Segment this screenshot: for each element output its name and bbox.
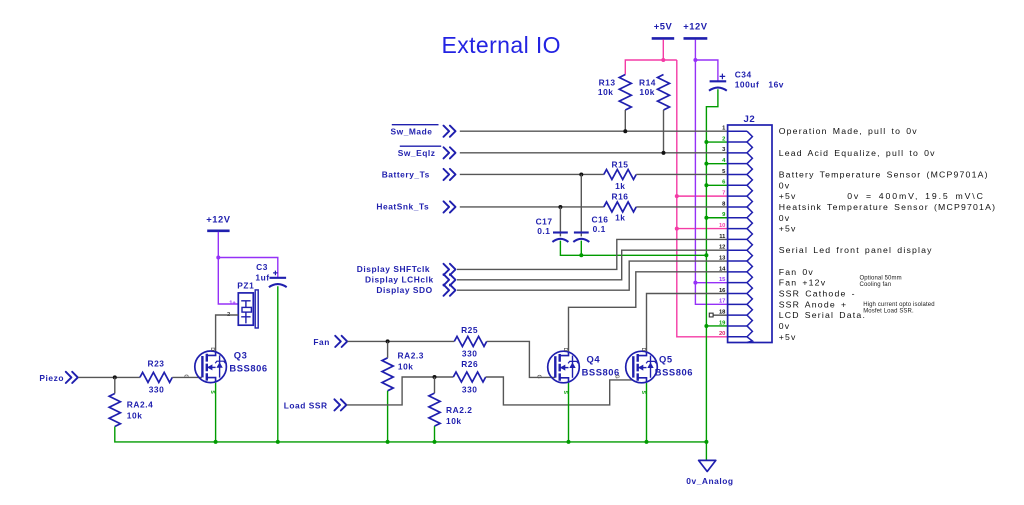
svg-text:R25: R25 xyxy=(461,325,478,335)
wire +12v branch to pin15 xyxy=(695,282,727,284)
svg-text:Battery Temperature Sensor (MC: Battery Temperature Sensor (MCP9701A) xyxy=(779,169,989,179)
svg-text:11: 11 xyxy=(719,234,726,240)
wire PZ1 pin2 to Q3 drain xyxy=(216,315,239,351)
svg-text:10k: 10k xyxy=(398,362,414,372)
wire R14 bottom to Sw_Eqlz xyxy=(663,110,665,153)
svg-text:Heatsink Temperature Sensor (M: Heatsink Temperature Sensor (MCP9701A) xyxy=(779,202,997,212)
svg-text:+12V: +12V xyxy=(683,21,708,32)
connector J2 xyxy=(728,114,772,343)
wire Display SHFTclk to pin11 xyxy=(457,239,728,269)
svg-text:Mosfet Load SSR.: Mosfet Load SSR. xyxy=(863,308,914,314)
wire 0v ground rail xyxy=(216,441,707,443)
svg-text:Fan: Fan xyxy=(313,337,330,347)
wire 0v stub to pin2 xyxy=(706,141,727,143)
node ground rail junction xyxy=(704,440,708,444)
port Display LCHclk input xyxy=(365,274,456,285)
wire RA2.2 bottom to ground xyxy=(434,426,436,442)
svg-text:Battery_Ts: Battery_Ts xyxy=(382,170,430,180)
svg-text:External IO: External IO xyxy=(442,32,561,58)
svg-text:12: 12 xyxy=(719,245,725,251)
node 0v junction pin2 xyxy=(704,140,708,144)
svg-text:G: G xyxy=(182,374,188,378)
wire Q3 source to ground rail xyxy=(215,383,217,442)
svg-text:Lead Acid Equalize, pull to 0v: Lead Acid Equalize, pull to 0v xyxy=(779,148,936,158)
svg-text:RA2.3: RA2.3 xyxy=(398,350,425,360)
svg-text:1k: 1k xyxy=(615,181,625,191)
wire 0v stub to pin9 xyxy=(706,217,727,219)
wire HeatSnk_Ts to R16 xyxy=(460,206,604,208)
svg-text:0v_Analog: 0v_Analog xyxy=(686,476,733,486)
svg-text:Serial Led front panel display: Serial Led front panel display xyxy=(779,245,933,255)
resistor R13 10k xyxy=(598,75,631,111)
transistor Q3 BSS806 xyxy=(182,347,267,394)
piezo PZ1 xyxy=(227,281,258,329)
svg-text:SSR Anode +: SSR Anode + xyxy=(779,299,848,309)
svg-text:High current opto isolated: High current opto isolated xyxy=(863,302,935,308)
node ground rail junction xyxy=(433,440,437,444)
svg-text:100uf: 100uf xyxy=(735,80,760,90)
svg-text:G: G xyxy=(535,375,541,379)
svg-text:R23: R23 xyxy=(147,359,164,369)
wire Battery_Ts to R15 xyxy=(460,173,604,175)
svg-text:1uf: 1uf xyxy=(255,272,269,282)
node ground rail junction xyxy=(645,440,649,444)
svg-text:BSS806: BSS806 xyxy=(229,363,267,374)
node ground rail junction xyxy=(386,440,390,444)
svg-text:G: G xyxy=(613,375,619,379)
wire Sw_Eqlz to pin3 xyxy=(460,152,728,154)
node Battery_Ts C16 junction xyxy=(579,172,583,176)
port Piezo input xyxy=(39,372,77,383)
svg-text:C34: C34 xyxy=(735,70,752,80)
resistor R23 330 xyxy=(140,359,172,395)
capacitor C3 1uf xyxy=(255,262,286,287)
node 0v junction pin4 xyxy=(704,162,708,166)
wire 0v stub to pin4 xyxy=(706,163,727,165)
wire +12v left rail down to PZ1 pin1 xyxy=(218,232,238,304)
svg-text:10: 10 xyxy=(719,223,725,229)
resistor RA2.2 10k xyxy=(429,393,473,426)
wire R15 to pin5 xyxy=(636,173,727,175)
svg-text:0v: 0v xyxy=(779,213,791,223)
node HeatSnk_Ts C17 junction xyxy=(558,205,562,209)
svg-text:D: D xyxy=(640,348,646,352)
svg-text:16: 16 xyxy=(719,288,726,294)
wire Q4 drain to pin14 xyxy=(569,272,728,352)
svg-text:SSR Cathode -: SSR Cathode - xyxy=(779,289,856,299)
node 0v junction pin19 xyxy=(704,324,708,328)
svg-text:+12V: +12V xyxy=(206,214,231,225)
wire R25 to Q4 gate xyxy=(487,341,556,377)
svg-text:Sw_Made: Sw_Made xyxy=(391,127,433,137)
wire Display LCHclk to pin12 xyxy=(457,250,728,280)
power +12V supply symbol (top) xyxy=(683,21,708,39)
svg-text:10k: 10k xyxy=(446,416,462,426)
svg-text:1k: 1k xyxy=(615,213,625,223)
svg-text:15: 15 xyxy=(719,277,726,283)
svg-text:Q3: Q3 xyxy=(234,350,248,361)
svg-text:330: 330 xyxy=(149,385,165,395)
node +5v pin7 junction xyxy=(675,194,679,198)
wire +5V bar to +5v rail junction xyxy=(662,40,664,61)
capacitor C34 100uf 16v xyxy=(709,70,784,91)
wire Battery_Ts to C16 top xyxy=(580,174,582,236)
port Load SSR input xyxy=(284,399,347,410)
svg-text:17: 17 xyxy=(719,299,725,305)
svg-text:RA2.4: RA2.4 xyxy=(127,400,154,410)
power +5V supply symbol xyxy=(652,21,675,39)
svg-text:Optional 50mm: Optional 50mm xyxy=(860,276,902,282)
node Sw_Eqlz R14 junction xyxy=(662,151,666,155)
wire Battery/HeatSnk to C17 top xyxy=(559,207,561,236)
node ground rail junction xyxy=(276,440,280,444)
svg-text:0v = 400mV, 19.5 mV\C: 0v = 400mV, 19.5 mV\C xyxy=(847,191,985,201)
resistor R26 330 xyxy=(453,359,485,394)
svg-text:Cooling fan: Cooling fan xyxy=(860,282,892,288)
wire R23 to Q3 gate xyxy=(172,376,202,378)
svg-text:R26: R26 xyxy=(461,359,478,369)
node +12v junction xyxy=(693,58,697,62)
wire +5v pink horizontal rail xyxy=(625,60,677,75)
svg-text:16v: 16v xyxy=(768,80,784,90)
wire +12v rail down to pin17 xyxy=(695,60,727,304)
svg-text:Piezo: Piezo xyxy=(39,373,64,383)
svg-text:J2: J2 xyxy=(744,114,756,125)
node +12v left junction xyxy=(216,256,220,260)
svg-text:330: 330 xyxy=(462,384,478,394)
svg-text:HeatSnk_Ts: HeatSnk_Ts xyxy=(376,202,429,212)
svg-text:BSS806: BSS806 xyxy=(655,367,693,378)
port Fan input xyxy=(313,336,347,347)
svg-text:+5v: +5v xyxy=(779,191,797,201)
node 0v junction pin6 xyxy=(704,183,708,187)
svg-text:2: 2 xyxy=(722,136,725,142)
node C16 0v junction xyxy=(579,253,583,257)
node Piezo RA2.4 junction xyxy=(113,375,117,379)
node +12v pin15 junction xyxy=(693,281,697,285)
svg-text:RA2.2: RA2.2 xyxy=(446,405,473,415)
node Fan RA2.3 junction xyxy=(386,339,390,343)
svg-text:18: 18 xyxy=(719,310,726,316)
svg-text:Display LCHclk: Display LCHclk xyxy=(365,275,434,285)
wire Load SSR to R26 xyxy=(347,377,454,405)
wire +12V bar down xyxy=(694,40,696,61)
node ground rail junction xyxy=(567,440,571,444)
transistor Q4 BSS806 xyxy=(535,348,620,395)
svg-text:0v: 0v xyxy=(779,180,791,190)
svg-text:R13: R13 xyxy=(599,78,616,88)
node +5v pin10 junction xyxy=(675,227,679,231)
port Display SHFTclk input xyxy=(357,264,456,275)
svg-text:10k: 10k xyxy=(639,87,655,97)
svg-text:Sw_Eqlz: Sw_Eqlz xyxy=(398,148,436,158)
port Sw_Made input xyxy=(391,125,456,137)
ground 0v_Analog symbol xyxy=(686,460,733,486)
wire C34 bottom to 0v vertical xyxy=(706,89,718,255)
power +12V supply symbol (left) xyxy=(206,214,231,231)
wire Sw_Made to pin1 xyxy=(460,130,728,132)
svg-text:0.1: 0.1 xyxy=(593,224,606,234)
svg-text:+5v: +5v xyxy=(779,224,797,234)
svg-text:7: 7 xyxy=(722,191,725,197)
node 0v junction pin9 xyxy=(704,216,708,220)
svg-text:+5V: +5V xyxy=(654,21,673,32)
svg-text:Load SSR: Load SSR xyxy=(284,401,328,411)
resistor R15 1k xyxy=(604,160,636,191)
capacitor C16 0.1 xyxy=(573,215,608,242)
svg-text:Fan 0v: Fan 0v xyxy=(779,267,814,277)
wire 0v stub to pin6 xyxy=(706,184,727,186)
node Sw_Made R13 junction xyxy=(623,129,627,133)
wire Piezo to R23 xyxy=(78,376,140,378)
wire R26 to Q5 gate xyxy=(486,377,634,405)
wire 0v stub to pin19 xyxy=(706,325,727,327)
wire Fan to R25 xyxy=(348,340,455,342)
wire RA2.2 top xyxy=(434,377,436,393)
svg-text:20: 20 xyxy=(719,331,725,337)
svg-text:330: 330 xyxy=(462,348,478,358)
node +5v junction at R14 xyxy=(661,58,665,62)
wire Q5 source to ground rail xyxy=(646,383,648,442)
svg-text:Q4: Q4 xyxy=(587,354,601,365)
resistor R16 1k xyxy=(604,192,636,223)
wire R13 bottom to Sw_Made xyxy=(624,110,626,131)
capacitor C17 0.1 xyxy=(536,217,569,242)
port HeatSnk_Ts input xyxy=(376,201,455,212)
wire RA2.3 top xyxy=(387,341,389,357)
wire Q5 drain to pin16 xyxy=(647,294,728,352)
wire C16 bottom to 0v xyxy=(580,241,582,256)
svg-text:LCD Serial Data.: LCD Serial Data. xyxy=(779,310,866,320)
svg-text:14: 14 xyxy=(719,266,726,272)
wire ground stub xyxy=(705,442,707,460)
net stub pin18 LCD serial data xyxy=(709,313,727,317)
svg-text:C3: C3 xyxy=(256,262,268,272)
wire +12v to C34 top xyxy=(695,60,718,81)
svg-text:R15: R15 xyxy=(611,160,628,170)
svg-text:0.1: 0.1 xyxy=(537,226,550,236)
svg-text:R14: R14 xyxy=(639,78,656,88)
node 0v caps junction xyxy=(704,253,708,257)
svg-text:Q5: Q5 xyxy=(659,354,673,365)
wire Display SDO to pin13 xyxy=(457,261,728,290)
svg-text:Display SHFTclk: Display SHFTclk xyxy=(357,264,430,274)
transistor Q5 BSS806 xyxy=(613,348,693,395)
svg-text:10k: 10k xyxy=(598,87,614,97)
port Battery_Ts input xyxy=(382,169,456,180)
wire +5v rail down to pin20 xyxy=(677,60,728,337)
resistor R14 10k xyxy=(639,75,670,111)
svg-text:PZ1: PZ1 xyxy=(237,281,254,291)
svg-text:D: D xyxy=(209,347,215,351)
node Load SSR RA2.2 junction xyxy=(433,375,437,379)
wire C17 bottom to 0v xyxy=(560,241,706,256)
svg-text:+5v: +5v xyxy=(779,332,797,342)
node ground rail junction xyxy=(214,440,218,444)
wire 0v vertical rail beside J2 xyxy=(705,255,707,442)
wire +12v branch to C3 xyxy=(218,258,277,278)
port Display SDO input xyxy=(376,285,455,296)
svg-text:0v: 0v xyxy=(779,321,791,331)
resistor RA2.3 10k xyxy=(382,350,424,391)
wire RA2.3 bottom to ground xyxy=(387,391,389,442)
resistor RA2.4 10k xyxy=(109,394,153,427)
svg-text:R16: R16 xyxy=(611,192,628,202)
svg-text:Display SDO: Display SDO xyxy=(376,285,432,295)
wire Q4 source to ground rail xyxy=(568,383,570,442)
wire +5v branch to pin10 xyxy=(677,228,728,230)
svg-text:Fan +12v: Fan +12v xyxy=(779,278,827,288)
svg-text:Operation Made, pull to 0v: Operation Made, pull to 0v xyxy=(779,126,918,136)
wire R16 to pin8 xyxy=(636,206,727,208)
wire RA2.4 bottom to ground rail xyxy=(115,427,216,442)
svg-text:10k: 10k xyxy=(127,410,143,420)
wire RA2.4 top xyxy=(114,377,116,393)
resistor R25 330 xyxy=(454,325,486,358)
svg-text:13: 13 xyxy=(719,255,726,261)
svg-text:D: D xyxy=(562,348,568,352)
port Sw_Eqlz input xyxy=(398,146,456,158)
svg-text:1+: 1+ xyxy=(229,300,236,306)
svg-text:19: 19 xyxy=(719,320,726,326)
wire C3 bottom to ground rail xyxy=(277,286,279,442)
wire +5v branch to pin7 xyxy=(677,195,728,197)
